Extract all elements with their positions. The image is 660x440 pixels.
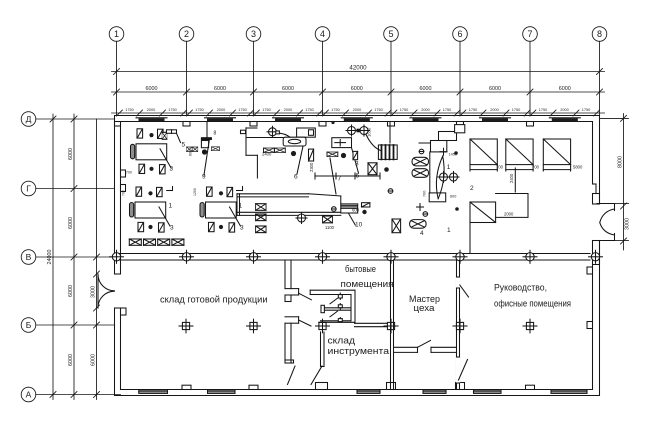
svg-text:1750: 1750 [168, 108, 176, 112]
svg-text:3: 3 [251, 29, 256, 39]
svg-text:1750: 1750 [512, 108, 520, 112]
svg-text:24000: 24000 [47, 250, 53, 265]
svg-text:цеха: цеха [414, 303, 435, 313]
svg-text:1: 1 [447, 227, 451, 234]
svg-text:2: 2 [184, 29, 189, 39]
svg-text:3: 3 [355, 161, 359, 168]
svg-text:700: 700 [532, 165, 540, 170]
svg-text:1750: 1750 [539, 108, 547, 112]
svg-text:6: 6 [294, 174, 298, 181]
svg-text:2400: 2400 [509, 173, 514, 183]
svg-text:6000: 6000 [214, 86, 226, 92]
svg-text:1750: 1750 [238, 108, 246, 112]
svg-text:склад готовой продукции: склад готовой продукции [160, 295, 268, 305]
svg-text:1750: 1750 [443, 108, 451, 112]
svg-text:6000: 6000 [68, 148, 74, 160]
svg-text:700: 700 [496, 165, 504, 170]
svg-text:1750: 1750 [125, 108, 133, 112]
svg-text:4: 4 [420, 230, 424, 237]
svg-text:1750: 1750 [195, 108, 203, 112]
svg-text:6000: 6000 [351, 86, 363, 92]
svg-text:1750: 1750 [400, 108, 408, 112]
svg-text:6000: 6000 [68, 217, 74, 229]
svg-text:1100: 1100 [325, 225, 335, 230]
svg-text:6000: 6000 [91, 354, 97, 366]
svg-text:помещения: помещения [341, 279, 394, 289]
svg-text:6: 6 [356, 173, 360, 180]
svg-text:7: 7 [338, 176, 342, 183]
svg-text:1200: 1200 [193, 188, 197, 196]
svg-text:2000: 2000 [490, 108, 498, 112]
svg-text:6000: 6000 [489, 86, 501, 92]
svg-text:1: 1 [447, 164, 451, 171]
svg-text:700: 700 [122, 190, 126, 196]
svg-text:1750: 1750 [469, 108, 477, 112]
svg-text:1650: 1650 [367, 127, 372, 137]
svg-text:3000: 3000 [625, 218, 631, 230]
svg-text:6000: 6000 [68, 354, 74, 366]
svg-text:1750: 1750 [305, 108, 313, 112]
svg-text:2000: 2000 [147, 108, 155, 112]
svg-text:1: 1 [169, 203, 173, 210]
svg-text:700: 700 [126, 171, 132, 175]
svg-text:8000: 8000 [618, 156, 624, 168]
svg-text:2000: 2000 [421, 108, 429, 112]
svg-text:8: 8 [214, 131, 217, 137]
svg-text:1750: 1750 [374, 108, 382, 112]
svg-text:6000: 6000 [146, 86, 158, 92]
svg-text:3: 3 [240, 225, 244, 232]
svg-text:1450: 1450 [449, 153, 457, 157]
svg-text:Б: Б [26, 320, 32, 330]
svg-text:2400: 2400 [262, 152, 272, 157]
svg-text:4: 4 [320, 29, 325, 39]
svg-text:2000: 2000 [284, 108, 292, 112]
svg-text:3: 3 [170, 225, 174, 232]
svg-text:2000: 2000 [217, 108, 225, 112]
svg-text:Г: Г [26, 184, 31, 194]
svg-text:10: 10 [355, 222, 363, 229]
svg-text:600: 600 [352, 208, 360, 213]
svg-text:5: 5 [388, 29, 393, 39]
svg-text:бытовые: бытовые [345, 264, 376, 274]
svg-text:5: 5 [182, 142, 186, 149]
svg-text:1750: 1750 [331, 108, 339, 112]
svg-text:1: 1 [114, 29, 119, 39]
svg-text:600: 600 [189, 150, 193, 156]
svg-text:1750: 1750 [582, 108, 590, 112]
svg-text:А: А [26, 390, 32, 400]
svg-text:8: 8 [597, 29, 602, 39]
svg-text:600: 600 [450, 195, 456, 199]
svg-text:2000: 2000 [353, 108, 361, 112]
svg-text:инструмента: инструмента [328, 346, 390, 356]
svg-text:В: В [26, 252, 32, 262]
svg-text:2300: 2300 [309, 162, 314, 172]
svg-text:2: 2 [470, 185, 474, 192]
svg-text:6000: 6000 [559, 86, 571, 92]
svg-text:1750: 1750 [262, 108, 270, 112]
svg-text:Д: Д [26, 114, 32, 124]
svg-text:склад: склад [328, 336, 356, 346]
svg-text:3: 3 [170, 166, 174, 173]
svg-text:7: 7 [527, 29, 532, 39]
svg-text:5800: 5800 [573, 165, 583, 170]
svg-text:2000: 2000 [560, 108, 568, 112]
svg-text:офисные помещения: офисные помещения [494, 299, 571, 309]
svg-text:2000: 2000 [504, 212, 514, 217]
svg-text:3000: 3000 [91, 286, 97, 298]
svg-text:6000: 6000 [420, 86, 432, 92]
svg-text:42000: 42000 [349, 65, 367, 72]
svg-text:6000: 6000 [68, 285, 74, 297]
svg-text:6: 6 [457, 29, 462, 39]
svg-text:700: 700 [423, 191, 427, 197]
svg-text:Руководство,: Руководство, [494, 283, 547, 293]
svg-text:6000: 6000 [282, 86, 294, 92]
